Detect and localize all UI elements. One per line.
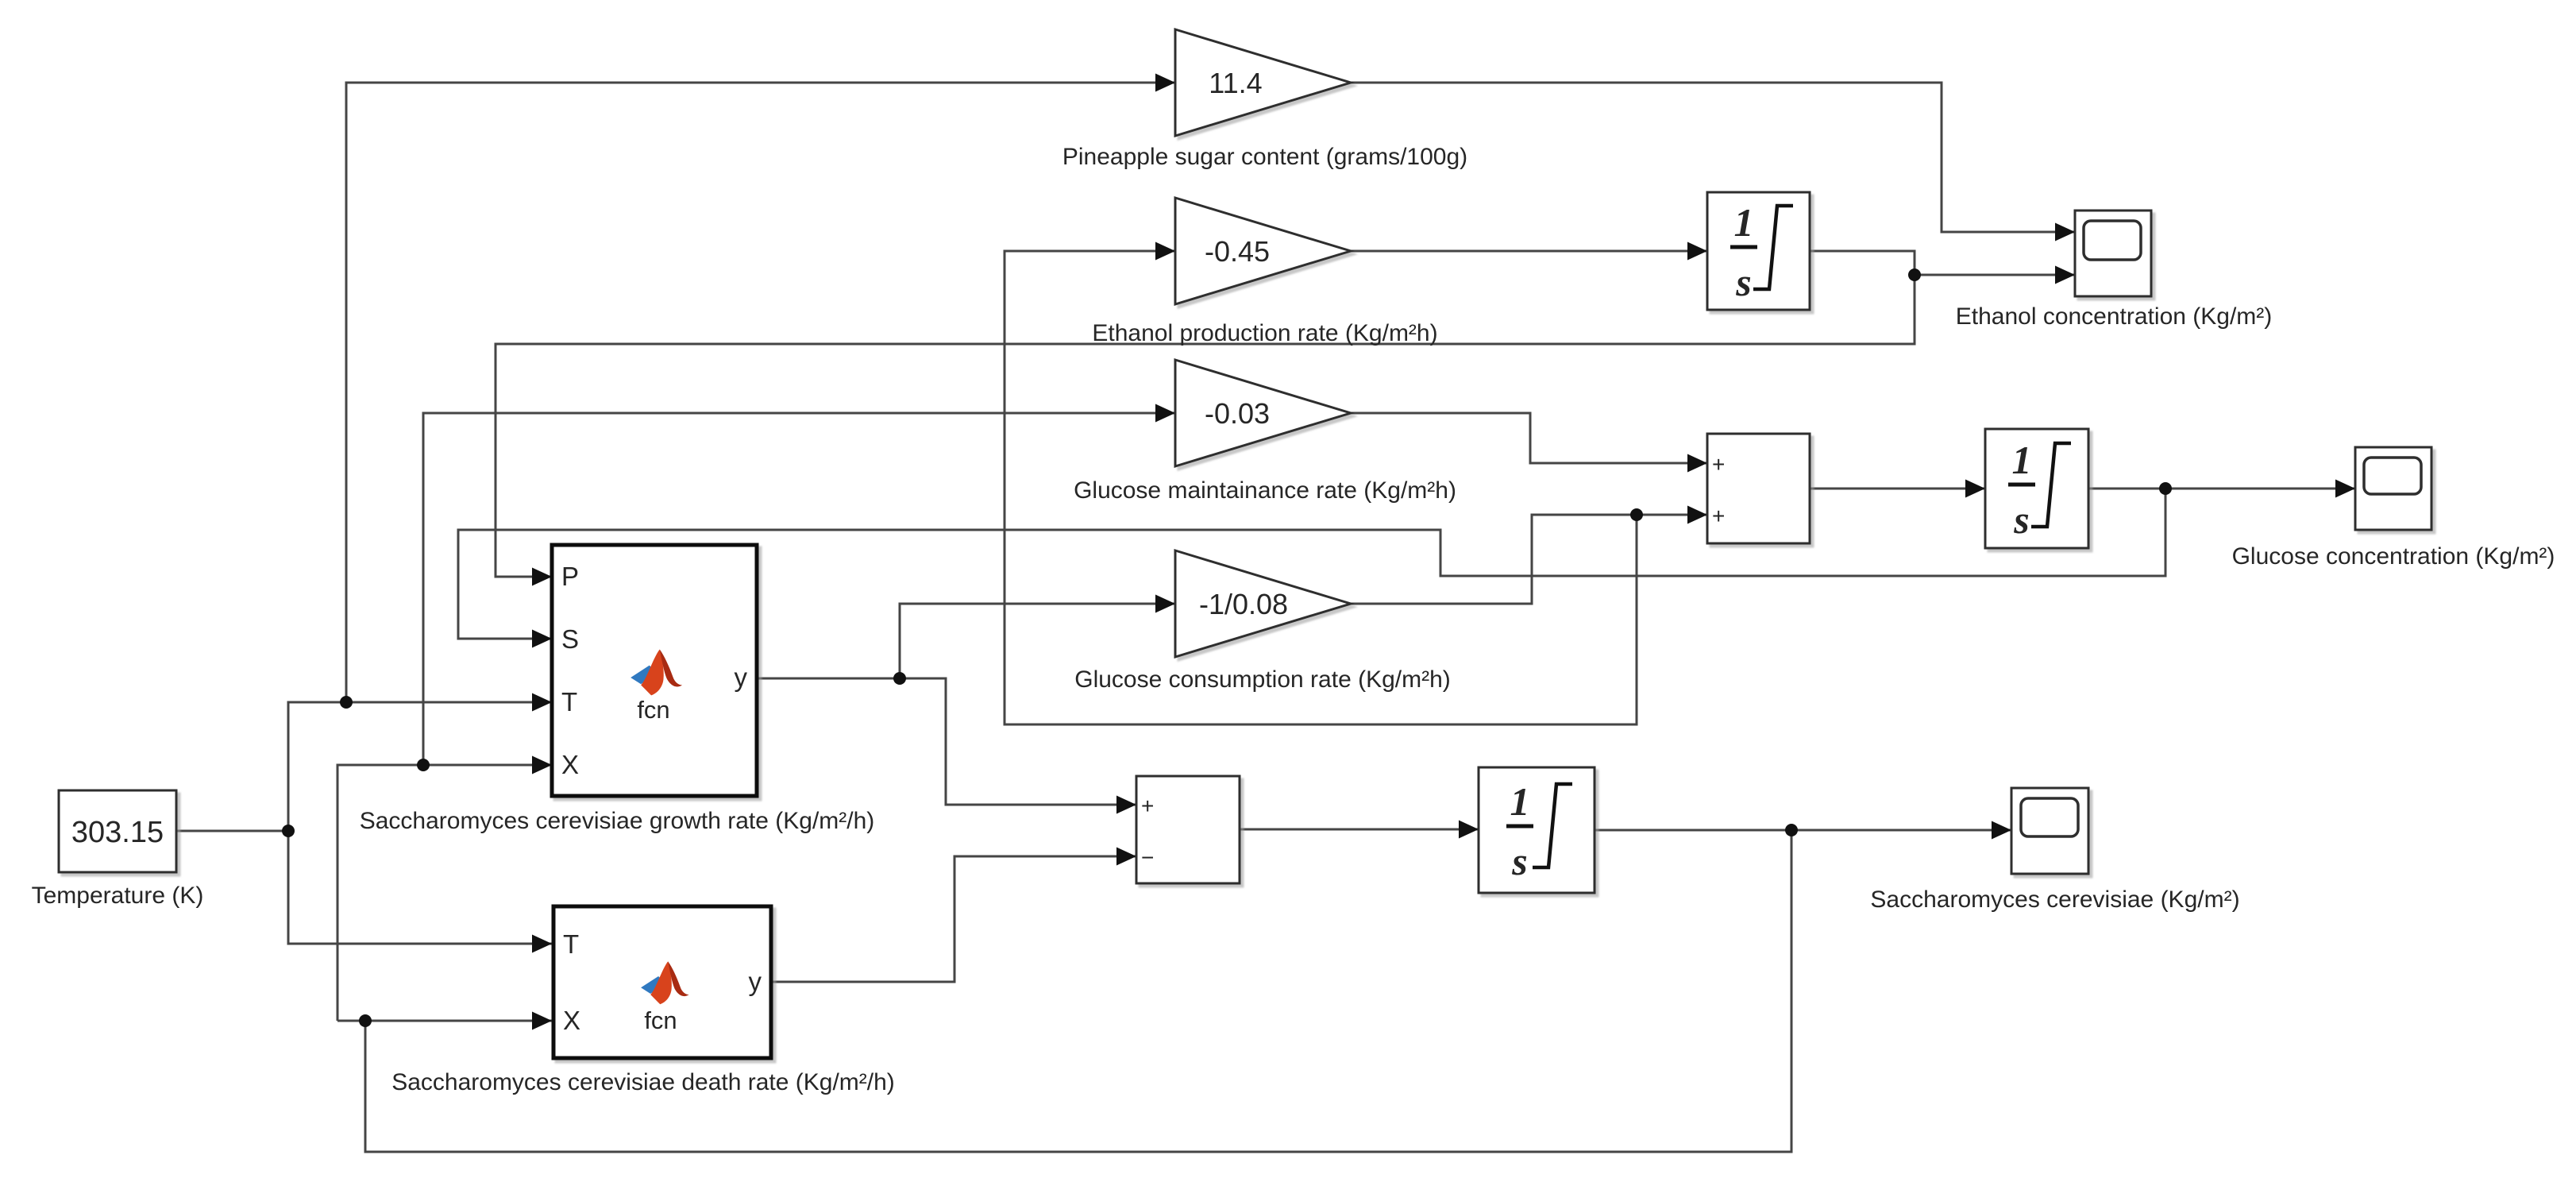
svg-text:Saccharomyces cerevisiae (Kg/m: Saccharomyces cerevisiae (Kg/m²) (1870, 886, 2239, 913)
svg-text:+: + (1141, 794, 1154, 818)
svg-text:303.15: 303.15 (71, 816, 164, 849)
svg-text:-0.45: -0.45 (1205, 235, 1270, 268)
svg-text:−: − (1141, 845, 1154, 870)
svg-text:y: y (735, 662, 748, 692)
svg-text:Glucose consumption rate (Kg/m: Glucose consumption rate (Kg/m²h) (1074, 666, 1451, 693)
svg-text:-1/0.08: -1/0.08 (1199, 588, 1288, 620)
svg-text:-0.03: -0.03 (1205, 397, 1270, 430)
svg-text:Glucose maintainance rate (Kg/: Glucose maintainance rate (Kg/m²h) (1074, 477, 1456, 504)
svg-text:Glucose concentration (Kg/m²): Glucose concentration (Kg/m²) (2232, 543, 2555, 570)
svg-text:11.4: 11.4 (1209, 67, 1262, 99)
svg-text:+: + (1712, 452, 1725, 477)
svg-text:Ethanol production rate (Kg/m²: Ethanol production rate (Kg/m²h) (1092, 320, 1437, 346)
svg-text:+: + (1712, 504, 1725, 528)
svg-text:P: P (561, 562, 579, 591)
svg-text:Temperature (K): Temperature (K) (32, 883, 204, 909)
svg-text:fcn: fcn (644, 1006, 677, 1034)
svg-text:1: 1 (1510, 779, 1530, 824)
svg-text:fcn: fcn (637, 696, 669, 724)
svg-text:X: X (563, 1006, 580, 1035)
svg-text:s: s (1735, 260, 1751, 304)
svg-text:Saccharomyces cerevisiae growt: Saccharomyces cerevisiae growth rate (Kg… (360, 808, 875, 834)
svg-text:s: s (1511, 839, 1527, 883)
svg-text:T: T (563, 929, 579, 959)
svg-text:S: S (561, 624, 579, 654)
svg-text:Saccharomyces cerevisiae death: Saccharomyces cerevisiae death rate (Kg/… (391, 1069, 895, 1095)
svg-text:1: 1 (2012, 438, 2032, 482)
svg-text:y: y (749, 967, 762, 996)
svg-text:X: X (561, 750, 579, 779)
svg-text:Ethanol concentration (Kg/m²): Ethanol concentration (Kg/m²) (1956, 303, 2273, 330)
svg-text:s: s (2013, 497, 2029, 542)
svg-text:Pineapple sugar content (grams: Pineapple sugar content (grams/100g) (1062, 144, 1467, 170)
svg-text:1: 1 (1734, 200, 1754, 245)
svg-text:T: T (561, 687, 577, 717)
